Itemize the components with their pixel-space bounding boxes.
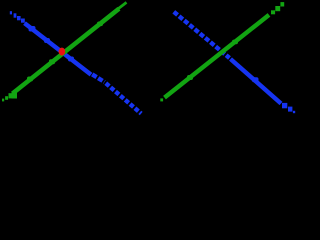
blue line B1 dashed segment (first chunkier dashes) [92,74,104,82]
green line G1 thin tail [119,2,127,8]
green line G1 start dots [2,92,17,102]
blue line B1 thickness bulges [29,26,75,62]
green line G2 end dash 1 [271,10,275,14]
blue line B1 start dots [10,11,25,23]
green line G2 end dash 2 [275,6,280,11]
blue line B2 dashed segment (behind green) [174,12,230,58]
green line G2 thickness bulges [187,40,238,80]
blue line B2 end dot [293,111,295,113]
blue line B1 dashed segment (tail dashes) [106,83,141,113]
green line G1 solid segment [13,9,120,94]
green line G2 solid segment [165,15,270,98]
blue line B2 end dash 2 [288,107,292,112]
blue line B2 end dash 1 [282,103,287,108]
blue line B2 thickness bulge [252,77,259,82]
blue line B1 solid segment [25,23,92,75]
green line G2 end dash 3 [280,2,284,6]
green line G2 start dot [160,98,163,101]
blue line B2 solid segment [231,59,282,104]
green line G1 thickness bulges [27,22,103,82]
red intersection point P [59,48,66,56]
